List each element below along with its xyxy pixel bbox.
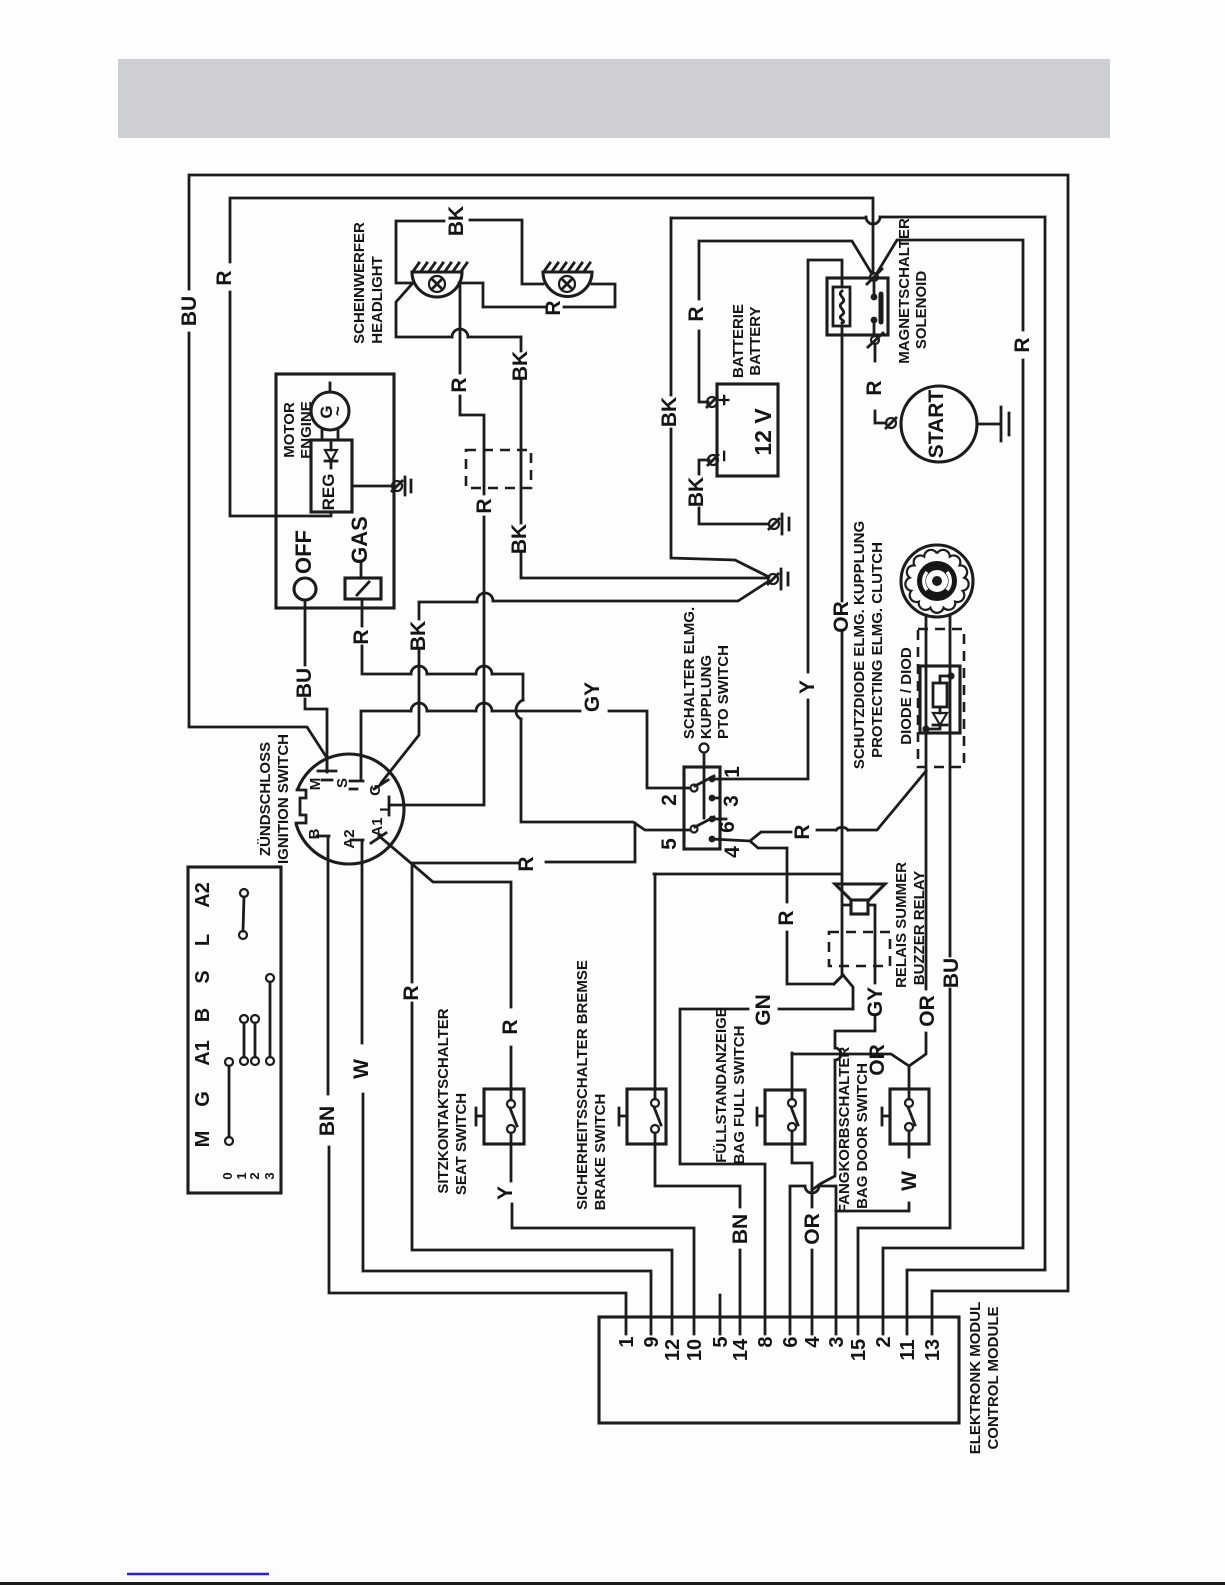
svg-text:5: 5 [658, 838, 681, 850]
lamp 1 bulb [429, 276, 445, 292]
START ground [977, 407, 1009, 441]
svg-text:PTO SWITCH: PTO SWITCH [715, 645, 732, 739]
diode triangle [933, 713, 947, 725]
junction node solenoid output [871, 336, 879, 344]
svg-text:3: 3 [262, 1172, 277, 1179]
wire hop at x873 on y217 [866, 217, 880, 224]
svg-text:12 V: 12 V [750, 408, 776, 456]
terminal A2 bar and wire W to pin 9 [351, 840, 651, 1317]
wire BK battery minus to ground [699, 460, 768, 524]
bottom page edge strip [0, 1582, 1225, 1585]
clutch inner arcs [924, 572, 951, 590]
terminal A1 tick [371, 833, 386, 843]
solenoid contact dots [871, 294, 878, 301]
buzzer cone [835, 884, 885, 900]
svg-text:6: 6 [780, 1336, 802, 1347]
REG box [311, 440, 352, 512]
svg-text:R: R [685, 306, 708, 321]
svg-text:R: R [542, 300, 565, 315]
svg-text:0: 0 [220, 1172, 235, 1179]
svg-text:GAS: GAS [347, 516, 372, 564]
svg-text:R: R [350, 629, 373, 644]
generator circle G [311, 392, 349, 430]
svg-text:SICHERHEITSSCHALTER BREMSE: SICHERHEITSSCHALTER BREMSE [574, 960, 591, 1210]
brake switch box [627, 1089, 666, 1144]
svg-text:4: 4 [721, 846, 744, 858]
brake switch contacts [651, 1099, 659, 1107]
solenoid coil box [833, 287, 850, 326]
wire BU clutch to module pin 15 [858, 615, 950, 1317]
diode resistor rect [933, 683, 947, 707]
svg-text:A2: A2 [192, 882, 214, 908]
svg-text:DIODE / DIOD: DIODE / DIOD [898, 647, 915, 745]
svg-text:R: R [791, 824, 814, 839]
GAS box [345, 578, 381, 599]
bag door switch box [890, 1089, 929, 1144]
PTO pin stubs [712, 798, 726, 819]
svg-text:BATTERIE: BATTERIE [730, 304, 747, 378]
svg-text:R: R [448, 377, 471, 392]
svg-text:BN: BN [729, 1214, 752, 1244]
module pin 5 stub [719, 1295, 722, 1317]
svg-text:SCHALTER ELMG.: SCHALTER ELMG. [681, 607, 698, 739]
svg-text:GN: GN [752, 994, 775, 1026]
svg-text:3: 3 [826, 1336, 848, 1347]
dashed connector box on BK wire [466, 450, 531, 488]
svg-text:A1: A1 [192, 1040, 214, 1066]
svg-text:BUZZER RELAY: BUZZER RELAY [911, 871, 928, 985]
wire BU: M terminal, left border, top border, right border, to module pin 13 [189, 175, 1068, 1317]
bag full actuator [757, 1108, 765, 1125]
svg-text:FANGKORBSCHALTER: FANGKORBSCHALTER [836, 1047, 853, 1214]
svg-text:W: W [350, 1059, 373, 1079]
svg-text:L: L [377, 802, 394, 811]
svg-text:RELAIS SUMMER: RELAIS SUMMER [893, 862, 910, 988]
relay leads [843, 905, 875, 983]
wire R lamp1 down to L feed [389, 283, 484, 805]
hop arcs on y674 [411, 666, 492, 674]
terminal B bar and wire BN to pin 1 [317, 836, 626, 1317]
svg-text:R: R [1011, 337, 1034, 352]
svg-text:2: 2 [873, 1336, 895, 1347]
svg-text:R: R [213, 270, 236, 285]
module pin stubs inside box [626, 1317, 932, 1334]
hop arc on y601 [477, 593, 493, 601]
wire Y: solenoid coil to PTO pin 1 [716, 260, 842, 779]
svg-text:BU: BU [293, 668, 316, 698]
legend bar B-A1 col2 [251, 1015, 259, 1023]
svg-text:L: L [192, 934, 214, 946]
bag full switch box [765, 1090, 805, 1144]
svg-text:MOTOR: MOTOR [281, 402, 298, 458]
wire OR: solenoid coil bottom down to relay, tee to brake switch line [654, 326, 842, 975]
svg-text:A2: A2 [341, 829, 358, 848]
legend bar A1-M col0 [225, 1058, 233, 1066]
header gray bar [118, 59, 1110, 138]
ignition switch notch [288, 789, 307, 824]
wire S: ignition S up and right as GY to PTO pin 2 [361, 711, 690, 788]
solenoid contact bar [879, 294, 884, 322]
svg-text:R: R [499, 1019, 522, 1034]
clutch gear ring [905, 550, 968, 613]
wire R battery+: up and across with vee dip to solenoid junction, down right to pin 2 [699, 240, 1023, 1317]
junction node at solenoid input [870, 273, 878, 281]
wire BK x671 down to ground vee [671, 218, 769, 577]
svg-text:BK: BK [445, 206, 468, 236]
svg-text:9: 9 [641, 1336, 663, 1347]
svg-text:SCHEINWERFER: SCHEINWERFER [351, 222, 368, 344]
svg-text:14: 14 [730, 1338, 752, 1361]
START terminal circle [886, 418, 896, 428]
PTO contacts [695, 776, 714, 827]
svg-text:1: 1 [721, 766, 744, 778]
bag door contacts [905, 1099, 913, 1107]
wire BK headlight top loop [396, 220, 543, 337]
svg-text:~: ~ [328, 406, 347, 416]
wire Y seat switch to pin 10 [511, 1133, 694, 1317]
svg-text:OFF: OFF [291, 530, 316, 574]
battery box [717, 384, 778, 476]
GAS slash [357, 582, 369, 595]
svg-text:BU: BU [178, 296, 201, 326]
footer blue rule [127, 1573, 269, 1576]
ground symbol battery [769, 519, 779, 529]
svg-text:2: 2 [658, 794, 681, 806]
svg-text:W: W [898, 1171, 921, 1191]
svg-text:8: 8 [755, 1336, 777, 1347]
legend box [188, 867, 281, 1193]
terminal G tick [374, 780, 388, 789]
headlight lamp 1 body [412, 272, 462, 297]
svg-text:OR: OR [830, 601, 853, 633]
svg-text:KUPPLUNG: KUPPLUNG [698, 655, 715, 739]
legend bar S-A1 col3 [266, 974, 274, 982]
wire GY relay lead continues to OR pin4 line [812, 1016, 875, 1190]
svg-text:13: 13 [922, 1339, 944, 1361]
svg-text:BU: BU [940, 958, 963, 988]
hop arc on y337 [452, 329, 468, 337]
svg-text:FÜLLSTANDANZEIGE: FÜLLSTANDANZEIGE [713, 1007, 730, 1163]
battery - terminal [708, 455, 718, 465]
svg-text:IGNITION SWITCH: IGNITION SWITCH [275, 734, 292, 864]
svg-text:BK: BK [685, 477, 708, 507]
svg-text:HEADLIGHT: HEADLIGHT [369, 256, 386, 344]
wire R from A1: fan to pin 12, PTO5 feed, seat switch [379, 823, 672, 1317]
relay bottom branches [834, 975, 853, 1009]
clutch hub dot [932, 576, 942, 586]
svg-text:GY: GY [581, 682, 604, 712]
OFF circle [294, 578, 316, 600]
svg-text:S: S [334, 778, 351, 788]
lamp 1 hatching [414, 263, 467, 270]
wire BK headlight down to ground [521, 337, 768, 578]
seat switch contacts [507, 1100, 515, 1108]
hop arc on y830 over OR [836, 827, 848, 830]
svg-text:+: + [713, 394, 736, 406]
svg-text:S: S [192, 970, 214, 983]
svg-text:R: R [473, 498, 496, 513]
diode junction dots [947, 672, 954, 679]
wire GN relay to module pin 8 [680, 1009, 853, 1317]
svg-text:3: 3 [720, 795, 743, 807]
svg-text:OR: OR [801, 1213, 824, 1245]
lamp 2 bulb [559, 276, 575, 292]
svg-text:2: 2 [247, 1172, 262, 1179]
generator to REG leads [322, 430, 338, 440]
wire BN brake bottom to pin 14 [655, 1133, 740, 1317]
hop arc on y1186 [805, 1186, 819, 1193]
svg-text:BK: BK [658, 397, 681, 427]
svg-text:R: R [863, 380, 886, 395]
wire OR clutch through diode box down to fork [792, 615, 926, 1099]
svg-text:CONTROL MODULE: CONTROL MODULE [985, 1306, 1002, 1449]
seat switch actuator [476, 1108, 484, 1125]
REG ground wire [352, 485, 392, 488]
svg-text:SOLENOID: SOLENOID [913, 271, 930, 350]
svg-text:11: 11 [897, 1339, 919, 1360]
wire bag full top to OR line [791, 1053, 794, 1099]
clutch circle [901, 545, 973, 617]
svg-text:SEAT SWITCH: SEAT SWITCH [453, 1093, 470, 1195]
svg-text:R: R [775, 910, 798, 925]
wire x523 hop over y711 and down to PTO5 jog [516, 700, 690, 830]
svg-text:BRAKE SWITCH: BRAKE SWITCH [592, 1094, 609, 1211]
svg-text:4: 4 [802, 1336, 824, 1348]
legend bar A2-L [240, 889, 248, 897]
wire BK: ignition G up to headlight ground line [381, 581, 769, 783]
svg-text:SCHUTZDIODE ELMG. KUPPLUNG: SCHUTZDIODE ELMG. KUPPLUNG [851, 521, 868, 769]
seat switch box [484, 1089, 524, 1144]
svg-text:M: M [192, 1131, 214, 1148]
legend bar B-A1 col1 [240, 1015, 248, 1023]
wire BU: OFF circle to ignition M [305, 600, 327, 771]
svg-text:15: 15 [848, 1339, 870, 1361]
headlight lamp 2 body [543, 272, 592, 297]
svg-text:B: B [192, 1008, 214, 1022]
svg-text:OR: OR [916, 995, 939, 1027]
diode inside REG [325, 443, 337, 468]
solenoid contact leads [873, 281, 876, 336]
solenoid coil squiggle [840, 291, 843, 323]
wire brake top to OR tee [654, 874, 657, 1099]
diode solid box [920, 666, 960, 733]
terminal L bar [388, 797, 391, 815]
svg-text:BK: BK [508, 524, 531, 554]
svg-text:ZÜNDSCHLOSS: ZÜNDSCHLOSS [257, 742, 274, 856]
buzzer body [851, 900, 868, 914]
svg-text:12: 12 [662, 1339, 684, 1361]
GAS leader [360, 562, 363, 578]
wire R solenoid to START [875, 344, 886, 423]
terminal S bar [350, 781, 363, 789]
brake switch actuator [619, 1108, 627, 1125]
svg-text:ELEKTRONK MODUL: ELEKTRONK MODUL [967, 1302, 984, 1455]
relay dashed box [829, 932, 890, 966]
svg-text:PROTECTING ELMG. CLUTCH: PROTECTING ELMG. CLUTCH [869, 542, 886, 758]
engine box [276, 374, 394, 608]
svg-text:MAGNETSCHALTER: MAGNETSCHALTER [896, 218, 913, 364]
svg-text:−: − [713, 450, 736, 462]
wire R: GAS down, right to PTO pin 5 feed [362, 599, 523, 700]
START motor circle [901, 386, 977, 462]
wire W bag door bottom to pin 3 link [836, 1131, 909, 1211]
svg-text:B: B [306, 828, 323, 839]
bag door actuator [882, 1108, 890, 1125]
svg-text:BAG FULL SWITCH: BAG FULL SWITCH [731, 1026, 748, 1165]
svg-text:R: R [400, 985, 423, 1000]
solenoid box [827, 278, 888, 335]
svg-text:5: 5 [710, 1336, 732, 1347]
svg-text:1: 1 [616, 1336, 638, 1347]
svg-text:Y: Y [494, 1186, 517, 1200]
control module box [599, 1317, 959, 1423]
wire R from PTO pin 4 [712, 771, 926, 984]
lamp 2 hatching [545, 263, 590, 270]
hop arcs on y711 [411, 703, 492, 711]
PTO switch box [684, 767, 720, 849]
svg-text:A1: A1 [369, 817, 386, 836]
wire y217: BK ground line to module pin 11 [671, 217, 1045, 1317]
svg-text:START: START [925, 390, 948, 459]
svg-text:R: R [515, 856, 538, 871]
svg-text:G: G [367, 784, 384, 796]
generator stub [329, 383, 332, 392]
svg-text:SITZKONTAKTSCHALTER: SITZKONTAKTSCHALTER [435, 1008, 452, 1193]
diode dashed box [918, 629, 964, 767]
svg-text:6: 6 [716, 821, 739, 833]
svg-text:BAG DOOR SWITCH: BAG DOOR SWITCH [854, 1063, 871, 1209]
svg-text:GY: GY [864, 987, 887, 1017]
svg-text:BATTERY: BATTERY [747, 306, 764, 375]
svg-text:Y: Y [796, 680, 819, 694]
svg-text:REG: REG [319, 474, 338, 511]
wire OR bag full bottom to pin 4 [792, 1131, 812, 1317]
svg-text:10: 10 [684, 1339, 706, 1361]
PTO actuator [700, 744, 709, 753]
bag full contacts [788, 1099, 796, 1107]
wire R: REG to solenoid junction (inner top border) [230, 198, 873, 516]
battery + terminal [707, 397, 717, 407]
ignition switch circle [294, 754, 404, 864]
svg-text:M: M [307, 778, 324, 791]
svg-text:BN: BN [316, 1106, 339, 1136]
wire pin6 to pin3 link with hop [790, 1186, 836, 1317]
svg-text:G: G [192, 1091, 214, 1107]
svg-text:BK: BK [509, 351, 532, 381]
terminal M bar [318, 771, 336, 780]
wire R between lamps [459, 283, 615, 307]
clutch dark ring [922, 566, 953, 597]
ground symbol vee (headlight/engine BK) [768, 574, 778, 584]
ground symbol REG [392, 481, 402, 491]
diode component leads [930, 676, 951, 729]
svg-text:BK: BK [407, 621, 430, 651]
